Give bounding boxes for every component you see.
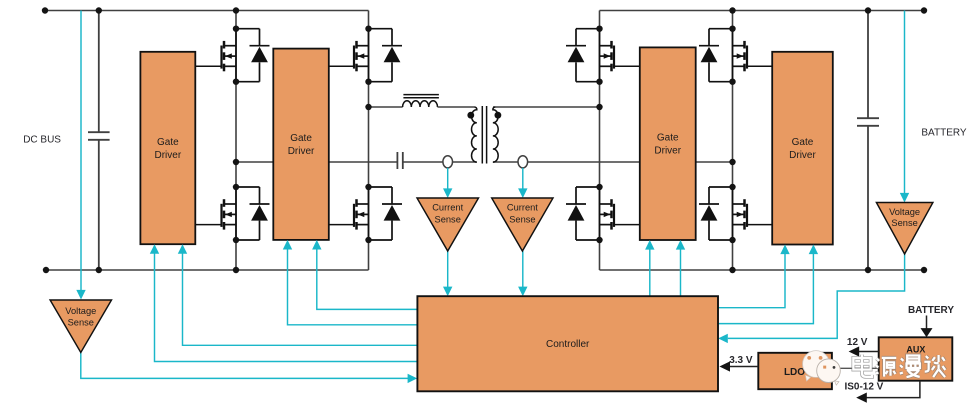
wire gate lead Q5 (614, 65, 640, 67)
wire bridge leg 3 vertical (599, 11, 601, 271)
wire series cap to transformer primary bottom (403, 161, 477, 163)
capacitor C1 DC bus (88, 11, 110, 271)
wire inductor to transformer primary (438, 106, 475, 108)
wire battery input to AUX (926, 316, 928, 329)
svg-text:Current: Current (432, 202, 463, 212)
svg-text:Sense: Sense (891, 218, 917, 228)
svg-text:BATTERY: BATTERY (908, 305, 954, 316)
svg-text:IS0-12 V: IS0-12 V (844, 381, 883, 392)
capacitor C2 series blocking (397, 152, 402, 169)
wire cyan CT primary to current sense 1 (447, 168, 449, 189)
svg-text:12 V: 12 V (847, 337, 868, 348)
wire gate lead Q2 (195, 224, 221, 226)
watermark wechat logo bubbles (803, 351, 841, 386)
wire cyan controller to gate driver U1 right input (183, 253, 418, 345)
wire bottom return rail (46, 269, 924, 271)
current sensor pickup (CT) primary (443, 156, 453, 168)
wire AUX ISO-12V output (866, 381, 920, 398)
current sense 2 block (492, 198, 553, 251)
svg-text:Gate: Gate (290, 133, 312, 144)
svg-text:Sense: Sense (435, 215, 461, 225)
transistor Q2 with body diode (222, 187, 270, 240)
transformer polarity dot secondary (495, 112, 502, 119)
svg-text:Gate: Gate (657, 133, 679, 144)
watermark text 电源漫谈 (853, 355, 872, 377)
current sense 1 block (417, 198, 479, 251)
svg-text:Gate: Gate (157, 137, 179, 148)
wire cyan CT secondary to current sense 2 (522, 168, 524, 189)
wire cyan controller to gate driver U2 right input (317, 249, 418, 310)
transformer T1 (472, 106, 499, 164)
wire gate lead Q6 (614, 224, 640, 226)
inductor L1 (403, 95, 439, 107)
wire cyan controller to gate driver U1 left input (155, 253, 418, 362)
transistor Q1 with body diode (222, 29, 270, 82)
wire secondary top link (transformer to leg3 midpoint) (493, 106, 600, 108)
wire cyan battery rail sense down to voltage sense right (904, 11, 906, 194)
wire cyan controller to gate driver U4 left input (718, 253, 785, 308)
wire gate lead Q1 (195, 65, 221, 67)
junction dots (circuit nodes) (42, 7, 927, 273)
wire bridge leg 2 vertical (368, 11, 370, 271)
gate driver U2 (273, 49, 329, 240)
svg-text:Voltage: Voltage (889, 207, 920, 217)
transistor Q3 with body diode (354, 29, 402, 82)
wire cyan current sense 2 to controller (522, 251, 524, 287)
transistor Q8 with body diode (699, 187, 747, 240)
svg-text:Gate: Gate (792, 137, 814, 148)
svg-text:DC BUS: DC BUS (23, 135, 61, 146)
svg-text:Driver: Driver (155, 150, 182, 161)
wire LDO 3.3V output to controller (729, 366, 758, 368)
wire primary top link (leg2 midpoint to transformer) (369, 106, 403, 108)
svg-text:Sense: Sense (68, 318, 94, 328)
auxiliary supply AUX U7 (879, 337, 953, 380)
wire gate lead Q8 (747, 224, 772, 226)
wire primary bottom link (leg1 midpoint to series cap, behind gate driver U2) (236, 161, 397, 163)
wire gate lead Q3 (329, 65, 354, 67)
current sensor pickup (CT) secondary (518, 156, 528, 168)
gate driver U3 (640, 47, 696, 240)
svg-text:Sense: Sense (509, 215, 535, 225)
wire cyan controller to gate driver U4 right input (718, 253, 813, 323)
wire AUX 12V output (858, 351, 879, 353)
wire cyan controller to gate driver U3 left input (649, 249, 651, 297)
svg-text:3.3 V: 3.3 V (729, 355, 753, 366)
transformer polarity dot primary (467, 112, 474, 119)
svg-text:LDO: LDO (784, 367, 805, 378)
controller U5 (417, 296, 718, 391)
transistor Q6 with body diode (566, 187, 614, 240)
regulator LDO U6 (758, 353, 832, 389)
gate driver U4 (772, 52, 833, 245)
svg-text:Driver: Driver (288, 146, 315, 157)
svg-text:BATTERY: BATTERY (921, 128, 967, 139)
transistor Q5 with body diode (566, 29, 614, 82)
svg-text:Driver: Driver (789, 150, 816, 161)
wire bridge leg 4 vertical (732, 11, 734, 271)
svg-text:Current: Current (507, 202, 538, 212)
transistor Q7 with body diode (699, 29, 747, 82)
wire gate lead Q4 (329, 224, 354, 226)
svg-text:Voltage: Voltage (65, 306, 96, 316)
voltage sense right block (876, 203, 933, 255)
wire bridge leg 1 vertical (235, 11, 237, 271)
wire cyan DC bus sense down to voltage sense left (80, 11, 82, 291)
voltage sense left block (50, 300, 111, 353)
wire secondary bottom link (transformer to leg4 midpoint, behind gate driver U3) (493, 161, 733, 163)
wire top DC bus rail (45, 10, 924, 12)
wire AUX to LDO (832, 367, 879, 369)
svg-text:Controller: Controller (546, 339, 590, 350)
wire gate lead Q7 (747, 65, 772, 67)
wire cyan voltage sense left output to controller (81, 353, 408, 379)
capacitor C3 battery side (857, 11, 879, 271)
svg-text:AUX: AUX (906, 345, 925, 355)
wire cyan controller to gate driver U3 right input (680, 249, 682, 297)
wire cyan controller to gate driver U2 left input (288, 249, 418, 325)
svg-text:Driver: Driver (654, 146, 681, 157)
wire cyan voltage sense right output to controller (728, 254, 905, 338)
wire cyan current sense 1 to controller (447, 251, 449, 287)
transistor Q4 with body diode (354, 187, 402, 240)
gate driver U1 (140, 52, 195, 244)
